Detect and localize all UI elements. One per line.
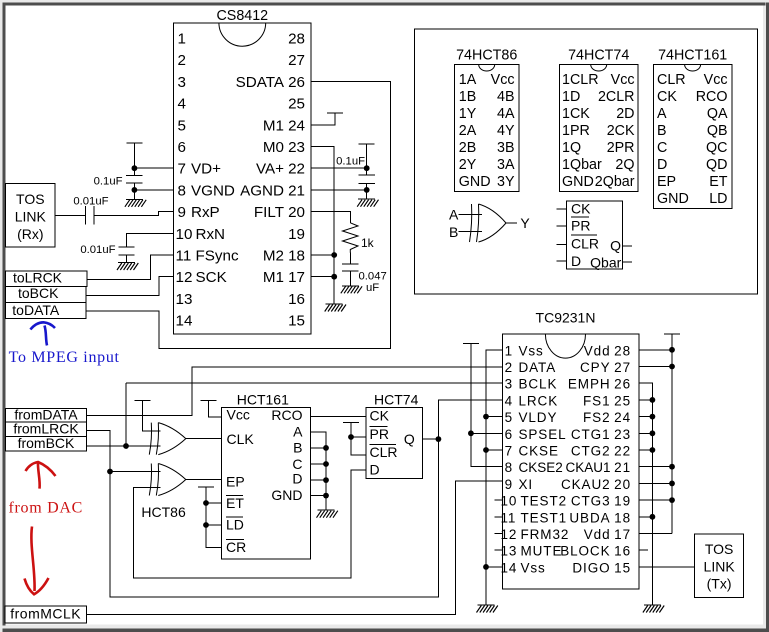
svg-text:4A: 4A — [497, 106, 515, 122]
svg-text:2: 2 — [178, 52, 186, 69]
wire HCT74 D to XOR2 input — [134, 470, 367, 578]
svg-text:0.1uF: 0.1uF — [336, 155, 365, 167]
svg-text:22: 22 — [614, 444, 631, 459]
svg-text:1Qbar: 1Qbar — [562, 157, 602, 173]
svg-text:4: 4 — [505, 393, 513, 408]
svg-text:QB: QB — [707, 123, 728, 139]
svg-text:3: 3 — [178, 74, 186, 91]
table 74HCT86 pinout — [455, 48, 519, 192]
svg-text:fromMCLK: fromMCLK — [10, 606, 81, 622]
svg-text:TOS: TOS — [16, 191, 45, 207]
svg-text:24: 24 — [288, 117, 305, 134]
svg-text:17: 17 — [288, 269, 305, 286]
table 74HCT161 pinout — [654, 48, 732, 209]
svg-text:A: A — [293, 423, 303, 439]
table 74HCT74 pinout — [559, 48, 638, 192]
IC U3 HCT74 block — [366, 391, 422, 478]
svg-text:2CK: 2CK — [607, 123, 635, 139]
svg-text:GND: GND — [459, 174, 491, 190]
TOS LINK (Tx) box — [695, 534, 744, 598]
svg-text:D: D — [370, 462, 380, 478]
svg-text:QA: QA — [707, 106, 728, 122]
svg-text:2Y: 2Y — [459, 157, 477, 173]
svg-text:SPSEL: SPSEL — [519, 427, 567, 442]
tie-high T1 for XOR1 input — [135, 400, 161, 431]
wire pin22 VA+ — [311, 167, 367, 169]
resistor R1 1k — [311, 212, 375, 253]
svg-text:26: 26 — [288, 74, 305, 91]
svg-text:19: 19 — [614, 494, 631, 509]
svg-text:16: 16 — [614, 544, 631, 559]
wire toDATA to pin26 SDATA — [86, 81, 391, 348]
svg-text:1CLR: 1CLR — [562, 72, 599, 88]
svg-text:To MPEG input: To MPEG input — [9, 349, 120, 366]
svg-text:AGND: AGND — [240, 182, 284, 199]
svg-text:TEST2: TEST2 — [521, 494, 568, 509]
svg-text:23: 23 — [614, 427, 631, 442]
svg-text:CK: CK — [657, 89, 677, 105]
svg-text:27: 27 — [288, 52, 305, 69]
wire pin24 M1 tie-high — [311, 113, 335, 125]
svg-text:13: 13 — [176, 291, 193, 308]
svg-text:QC: QC — [706, 140, 727, 156]
svg-text:2D: 2D — [616, 106, 634, 122]
svg-text:Y: Y — [520, 215, 530, 231]
svg-text:9: 9 — [505, 477, 513, 492]
svg-text:74HCT86: 74HCT86 — [456, 48, 517, 64]
CS8412 left pin labels — [176, 31, 239, 330]
ground G7 — [478, 604, 495, 606]
svg-text:0.01uF: 0.01uF — [73, 196, 108, 208]
svg-text:CKAU2: CKAU2 — [561, 477, 611, 492]
svg-text:11: 11 — [501, 510, 517, 525]
svg-text:VLDY: VLDY — [519, 410, 558, 425]
svg-text:1D: 1D — [562, 89, 580, 105]
XOR gate X2 HCT86 — [149, 464, 186, 496]
svg-text:10: 10 — [501, 494, 518, 509]
svg-text:CKSE: CKSE — [519, 444, 559, 459]
svg-text:GND: GND — [271, 487, 302, 503]
svg-text:BLOCK: BLOCK — [560, 544, 610, 559]
svg-text:QD: QD — [706, 157, 727, 173]
svg-text:1k: 1k — [361, 236, 375, 250]
svg-text:1PR: 1PR — [562, 123, 590, 139]
svg-text:Vcc: Vcc — [611, 72, 635, 88]
svg-text:CK: CK — [571, 201, 591, 217]
tie-high T2 HCT161 Vcc — [201, 400, 222, 417]
svg-text:1Y: 1Y — [459, 106, 477, 122]
svg-text:HCT86: HCT86 — [141, 504, 186, 520]
wire DIGO to TOS Tx — [639, 566, 695, 568]
svg-text:4Y: 4Y — [497, 123, 515, 139]
capacitor C2 0.1uF VD+ — [94, 143, 143, 199]
svg-text:Vss: Vss — [519, 343, 544, 358]
svg-text:GND: GND — [657, 191, 689, 207]
svg-text:2Q: 2Q — [615, 157, 634, 173]
flip-flop legend block — [556, 201, 632, 271]
svg-text:TEST1: TEST1 — [521, 510, 568, 525]
svg-text:EP: EP — [226, 474, 245, 490]
svg-text:toDATA: toDATA — [12, 302, 60, 318]
svg-text:27: 27 — [614, 360, 631, 375]
svg-text:23: 23 — [288, 139, 305, 156]
svg-text:25: 25 — [614, 393, 631, 408]
svg-text:DATA: DATA — [519, 360, 557, 375]
svg-text:D: D — [657, 157, 667, 173]
tie-high T5 SPSEL CKSE2 rail — [463, 344, 502, 467]
svg-text:15: 15 — [288, 313, 305, 330]
wire fromDATA to TC9231N pin2 DATA — [87, 367, 503, 415]
svg-text:0.047: 0.047 — [359, 270, 387, 282]
capacitor C1 0.01uF series — [73, 196, 108, 225]
svg-text:11: 11 — [176, 248, 192, 265]
svg-text:CKAU1: CKAU1 — [565, 460, 610, 475]
svg-text:CKSE2: CKSE2 — [519, 460, 563, 475]
svg-text:28: 28 — [288, 31, 305, 48]
svg-text:17: 17 — [614, 527, 631, 542]
svg-text:BCLK: BCLK — [519, 377, 558, 392]
svg-text:1Q: 1Q — [562, 140, 581, 156]
svg-text:2: 2 — [505, 360, 513, 375]
XOR gate legend — [449, 204, 530, 242]
svg-text:1A: 1A — [459, 72, 477, 88]
svg-text:toLRCK: toLRCK — [13, 269, 63, 285]
svg-text:4: 4 — [178, 96, 186, 113]
svg-text:SCK: SCK — [196, 269, 227, 286]
wire VGND pin8 — [134, 189, 173, 191]
svg-text:RxP: RxP — [191, 204, 220, 221]
svg-text:Q: Q — [404, 431, 415, 447]
svg-text:MUTE: MUTE — [521, 544, 563, 559]
wire TOS Rx to C1 — [55, 215, 85, 217]
svg-text:CLK: CLK — [227, 431, 255, 447]
wire pin10 RxN to C3 — [127, 233, 174, 247]
svg-text:1: 1 — [505, 343, 513, 358]
svg-text:VA+: VA+ — [256, 161, 284, 178]
ground G2 — [118, 262, 135, 264]
svg-text:CR: CR — [226, 539, 246, 555]
svg-text:EMPH: EMPH — [568, 377, 611, 392]
svg-text:21: 21 — [288, 182, 305, 199]
CS8412 right pin labels — [236, 31, 305, 330]
svg-text:Q: Q — [610, 237, 621, 253]
svg-text:0.01uF: 0.01uF — [80, 244, 115, 256]
svg-text:Vdd: Vdd — [584, 527, 611, 542]
svg-text:RxN: RxN — [196, 226, 226, 243]
svg-text:uF: uF — [366, 282, 379, 294]
TC9231N test pin stubs — [494, 500, 648, 550]
svg-text:CTG1: CTG1 — [571, 427, 611, 442]
wire EMPH ground rail right — [639, 383, 655, 605]
svg-text:HCT74: HCT74 — [374, 391, 419, 407]
svg-text:LINK: LINK — [15, 209, 47, 225]
ground G4 — [358, 198, 375, 200]
capacitor C4 0.1uF VA+ — [336, 144, 375, 199]
svg-text:74HCT161: 74HCT161 — [658, 48, 727, 64]
svg-text:Qbar: Qbar — [590, 255, 621, 271]
svg-text:6: 6 — [505, 427, 513, 442]
svg-text:toBCK: toBCK — [18, 285, 59, 301]
svg-text:CTG3: CTG3 — [571, 494, 611, 509]
wire XOR2 out to HCT161 EP — [186, 479, 222, 481]
svg-text:TOS: TOS — [705, 541, 734, 557]
wire C1 to pin9 RxP — [94, 212, 174, 216]
svg-text:18: 18 — [288, 248, 305, 265]
ground G5 — [342, 285, 359, 287]
node fromLRCK box — [6, 421, 87, 437]
svg-text:6: 6 — [178, 139, 186, 156]
svg-text:15: 15 — [614, 560, 631, 575]
wire toBCK to pin12 SCK — [86, 277, 174, 296]
svg-text:PR: PR — [571, 217, 590, 233]
svg-text:5: 5 — [505, 410, 513, 425]
svg-text:Vss: Vss — [521, 560, 546, 575]
svg-text:7: 7 — [505, 444, 513, 459]
svg-text:2A: 2A — [459, 123, 477, 139]
tie-high T3 HCT74 PR CLR — [343, 422, 366, 455]
TC9231N right pin labels — [560, 343, 631, 575]
TC9231N left pin labels — [501, 343, 570, 575]
red annotation arrow up — [26, 462, 56, 489]
svg-text:74HCT74: 74HCT74 — [568, 48, 629, 64]
blue annotation arrow — [30, 322, 55, 345]
svg-text:7: 7 — [178, 161, 186, 178]
svg-text:A: A — [657, 106, 667, 122]
svg-text:TC9231N: TC9231N — [536, 310, 596, 326]
tie-high T4 HCT161 ET LD CR — [198, 487, 222, 548]
ground G8 — [644, 604, 661, 606]
svg-text:SDATA: SDATA — [236, 74, 285, 91]
svg-text:CLR: CLR — [657, 72, 686, 88]
svg-text:14: 14 — [501, 560, 518, 575]
svg-text:CS8412: CS8412 — [216, 8, 268, 24]
svg-text:D: D — [571, 253, 581, 269]
XOR gate X1 HCT86 — [149, 423, 186, 455]
svg-text:CLR: CLR — [571, 235, 599, 251]
wire VD+ pin7 — [134, 167, 173, 169]
svg-text:2CLR: 2CLR — [598, 89, 635, 105]
svg-text:CK: CK — [370, 407, 390, 423]
svg-text:CLR: CLR — [370, 444, 398, 460]
svg-text:D: D — [292, 470, 302, 486]
svg-text:21: 21 — [614, 460, 631, 475]
svg-text:1CK: 1CK — [562, 106, 590, 122]
svg-text:9: 9 — [178, 204, 186, 221]
svg-text:2Qbar: 2Qbar — [595, 174, 635, 190]
ground G6 — [318, 509, 335, 511]
svg-text:VGND: VGND — [191, 182, 235, 199]
IC U1 CS8412 body — [174, 8, 312, 334]
wire RCO to HCT74 CK — [311, 415, 367, 417]
TOS LINK (Rx) box — [6, 184, 55, 247]
svg-text:Vdd: Vdd — [584, 343, 611, 358]
svg-text:M1: M1 — [263, 269, 284, 286]
red annotation arrow down — [25, 527, 49, 595]
svg-text:12: 12 — [176, 269, 193, 286]
wire TC9231N pin1 Vss to ground rail — [483, 350, 502, 605]
wire pin21 AGND — [311, 189, 367, 191]
ground G3 — [326, 303, 343, 305]
svg-text:2PR: 2PR — [607, 140, 635, 156]
wire M0 M2 M1 ground rail — [311, 147, 337, 305]
svg-text:ET: ET — [709, 174, 728, 190]
svg-text:10: 10 — [176, 226, 193, 243]
svg-text:B: B — [449, 224, 458, 240]
tie-high T6 Vdd rail right — [639, 334, 680, 534]
node toDATA box — [6, 302, 87, 319]
svg-text:CPY: CPY — [580, 360, 610, 375]
svg-text:(Tx): (Tx) — [707, 576, 732, 592]
svg-text:M2: M2 — [263, 248, 284, 265]
svg-text:1: 1 — [178, 31, 186, 48]
ground G1 — [126, 198, 143, 200]
svg-text:fromBCK: fromBCK — [18, 435, 75, 451]
svg-text:3A: 3A — [497, 157, 515, 173]
svg-text:VD+: VD+ — [191, 161, 221, 178]
wire HCT74 Q to LRCK net — [422, 438, 438, 440]
svg-text:26: 26 — [614, 377, 631, 392]
node fromDATA box — [6, 406, 87, 422]
svg-text:DIGO: DIGO — [572, 560, 610, 575]
svg-text:GND: GND — [562, 174, 594, 190]
capacitor C5 0.047uF — [342, 253, 387, 295]
node toLRCK box — [6, 269, 87, 286]
IC U2 HCT161 block — [222, 391, 311, 559]
wire toLRCK to pin11 FSync — [87, 255, 174, 280]
svg-text:20: 20 — [614, 477, 631, 492]
svg-text:0.1uF: 0.1uF — [94, 176, 123, 188]
svg-text:FS2: FS2 — [583, 410, 610, 425]
svg-text:14: 14 — [176, 313, 193, 330]
svg-text:XI: XI — [519, 477, 534, 492]
svg-text:18: 18 — [614, 510, 631, 525]
node fromMCLK box — [5, 606, 87, 623]
svg-text:FSync: FSync — [196, 248, 239, 265]
svg-text:UBDA: UBDA — [569, 510, 610, 525]
svg-text:LRCK: LRCK — [519, 393, 559, 408]
svg-text:19: 19 — [288, 226, 305, 243]
svg-text:M0: M0 — [263, 139, 284, 156]
node toBCK box — [6, 285, 87, 302]
svg-text:13: 13 — [501, 544, 518, 559]
svg-text:M1: M1 — [263, 117, 284, 134]
svg-text:from DAC: from DAC — [9, 500, 83, 517]
svg-text:FRM32: FRM32 — [521, 527, 570, 542]
svg-text:CTG2: CTG2 — [571, 444, 611, 459]
svg-text:LD: LD — [226, 517, 244, 533]
svg-text:2B: 2B — [459, 140, 477, 156]
svg-text:Vcc: Vcc — [227, 407, 250, 423]
svg-text:RCO: RCO — [271, 407, 302, 423]
svg-text:4B: 4B — [497, 89, 515, 105]
capacitor C3 0.01uF RxN — [80, 244, 134, 263]
svg-text:FS1: FS1 — [583, 393, 610, 408]
svg-text:24: 24 — [614, 410, 631, 425]
svg-text:RCO: RCO — [696, 89, 728, 105]
svg-text:3Y: 3Y — [497, 174, 515, 190]
svg-text:28: 28 — [614, 343, 631, 358]
svg-text:(Rx): (Rx) — [17, 226, 43, 242]
svg-text:A: A — [449, 206, 459, 222]
wire fromBCK net to XOR1 and pin3 BCLK — [87, 383, 503, 449]
wire fromMCLK to pin9 XI — [87, 481, 503, 615]
svg-text:1B: 1B — [459, 89, 477, 105]
svg-text:Vcc: Vcc — [704, 72, 728, 88]
wire fromLRCK net — [87, 400, 503, 597]
svg-text:C: C — [657, 140, 667, 156]
IC U4 TC9231N body — [502, 310, 639, 589]
svg-text:12: 12 — [501, 527, 518, 542]
svg-text:LINK: LINK — [704, 558, 736, 574]
svg-text:3: 3 — [505, 377, 513, 392]
svg-text:B: B — [293, 440, 302, 456]
svg-text:B: B — [657, 123, 667, 139]
svg-text:ET: ET — [226, 495, 244, 511]
svg-text:5: 5 — [178, 117, 186, 134]
wire XOR1 out to HCT161 CLK — [186, 438, 222, 440]
svg-text:FILT: FILT — [254, 204, 284, 221]
svg-text:25: 25 — [288, 96, 305, 113]
node fromBCK box — [6, 435, 87, 451]
svg-text:20: 20 — [288, 204, 305, 221]
svg-text:16: 16 — [288, 291, 305, 308]
svg-text:3B: 3B — [497, 140, 515, 156]
svg-text:8: 8 — [505, 460, 513, 475]
reference pinout box — [415, 29, 758, 294]
svg-text:EP: EP — [657, 174, 676, 190]
svg-text:HCT161: HCT161 — [237, 391, 289, 407]
svg-text:22: 22 — [288, 161, 305, 178]
svg-text:8: 8 — [178, 182, 186, 199]
svg-text:Vcc: Vcc — [491, 72, 515, 88]
svg-text:PR: PR — [370, 426, 389, 442]
wire HCT161 ABCD GND rail — [311, 432, 329, 510]
svg-text:LD: LD — [709, 191, 727, 207]
